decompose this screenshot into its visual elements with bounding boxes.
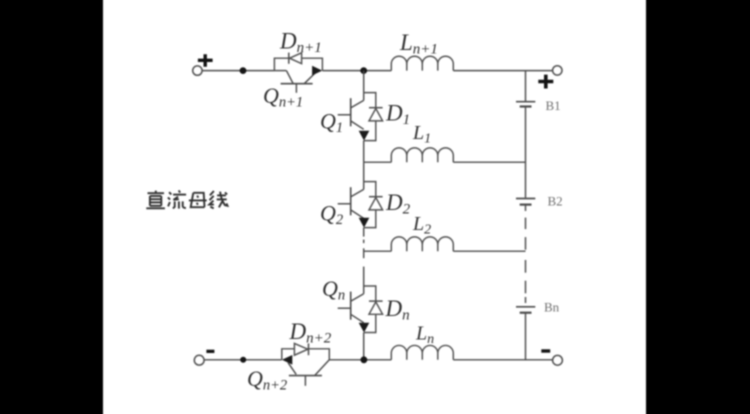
minus sign bottom-right bbox=[541, 349, 550, 352]
battery Bn bbox=[516, 306, 535, 308]
wire middle column top bbox=[363, 71, 365, 93]
wire bottom rail mid segment bbox=[329, 359, 391, 361]
transistor Qn (IGBT with diode Dn) bbox=[363, 286, 365, 294]
terminal + top-left bbox=[193, 66, 202, 75]
inductor L1 bbox=[391, 148, 453, 162]
wire Q2 emitter stub bbox=[363, 228, 365, 237]
terminal + top-right bbox=[553, 66, 562, 75]
inductor Ln+1 bbox=[391, 56, 453, 70]
wire right column dashed section bbox=[525, 218, 527, 230]
wire L1 stub bbox=[364, 161, 392, 163]
plus sign top-left bbox=[198, 54, 213, 67]
wire L2 stub bbox=[364, 250, 392, 252]
wire top rail mid segment bbox=[322, 70, 391, 72]
node dc bus + junction dot bbox=[240, 67, 247, 74]
diode Dn+1 bbox=[290, 53, 302, 64]
wire right column B1-B2 bbox=[525, 107, 527, 198]
terminal - bottom-right bbox=[553, 355, 563, 365]
wire Qn+2 bypass loop bbox=[282, 349, 330, 360]
minus sign bottom-left bbox=[206, 350, 214, 353]
wire middle column L1-Q2 bbox=[363, 162, 365, 181]
svg-text:B1: B1 bbox=[546, 98, 561, 113]
inductor L2 bbox=[391, 237, 453, 251]
label 直流母线 (DC bus) bbox=[148, 192, 165, 194]
transistor Q1 (IGBT with diode D1) bbox=[363, 93, 365, 101]
wire middle column dashes bbox=[363, 240, 365, 244]
wire right column B2 stub bbox=[525, 205, 527, 211]
transistor Qn+1 (IGBT) bbox=[274, 70, 286, 72]
wire top rail left segment bbox=[202, 70, 274, 72]
node mid-top junction dot bbox=[360, 67, 367, 74]
wire right column bottom bbox=[525, 314, 527, 360]
battery B1 bbox=[516, 101, 535, 103]
node mid-bottom junction dot bbox=[361, 356, 368, 363]
left pillarbox bar bbox=[0, 0, 103, 414]
battery B2 bbox=[516, 198, 535, 200]
wire L1 right segment bbox=[453, 161, 525, 163]
transistor Qn+2 (IGBT) bbox=[282, 355, 292, 365]
node dc bus - junction dot bbox=[240, 357, 246, 363]
plus sign top-right bbox=[538, 75, 553, 89]
wire bottom rail left segment bbox=[204, 359, 281, 361]
svg-text:Bn: Bn bbox=[544, 300, 560, 315]
right pillarbox bar bbox=[646, 0, 750, 414]
wire top rail right segment bbox=[453, 70, 552, 72]
wire middle column Qn collector bbox=[363, 267, 365, 286]
wire Q1 emitter to L1 rail bbox=[363, 141, 365, 163]
wire Qn+1 bypass loop bbox=[274, 58, 322, 70]
transistor Q2 (IGBT with diode D2) bbox=[363, 182, 365, 190]
wire bottom rail right segment bbox=[453, 359, 552, 361]
wire right column top bbox=[525, 71, 527, 101]
terminal - bottom-left bbox=[194, 355, 204, 365]
inductor Ln bbox=[391, 345, 453, 359]
wire Qn emitter to bottom rail bbox=[363, 333, 365, 360]
svg-text:B2: B2 bbox=[548, 194, 563, 209]
diode Dn+2 bbox=[294, 343, 307, 355]
wire L2 right segment bbox=[453, 250, 525, 252]
